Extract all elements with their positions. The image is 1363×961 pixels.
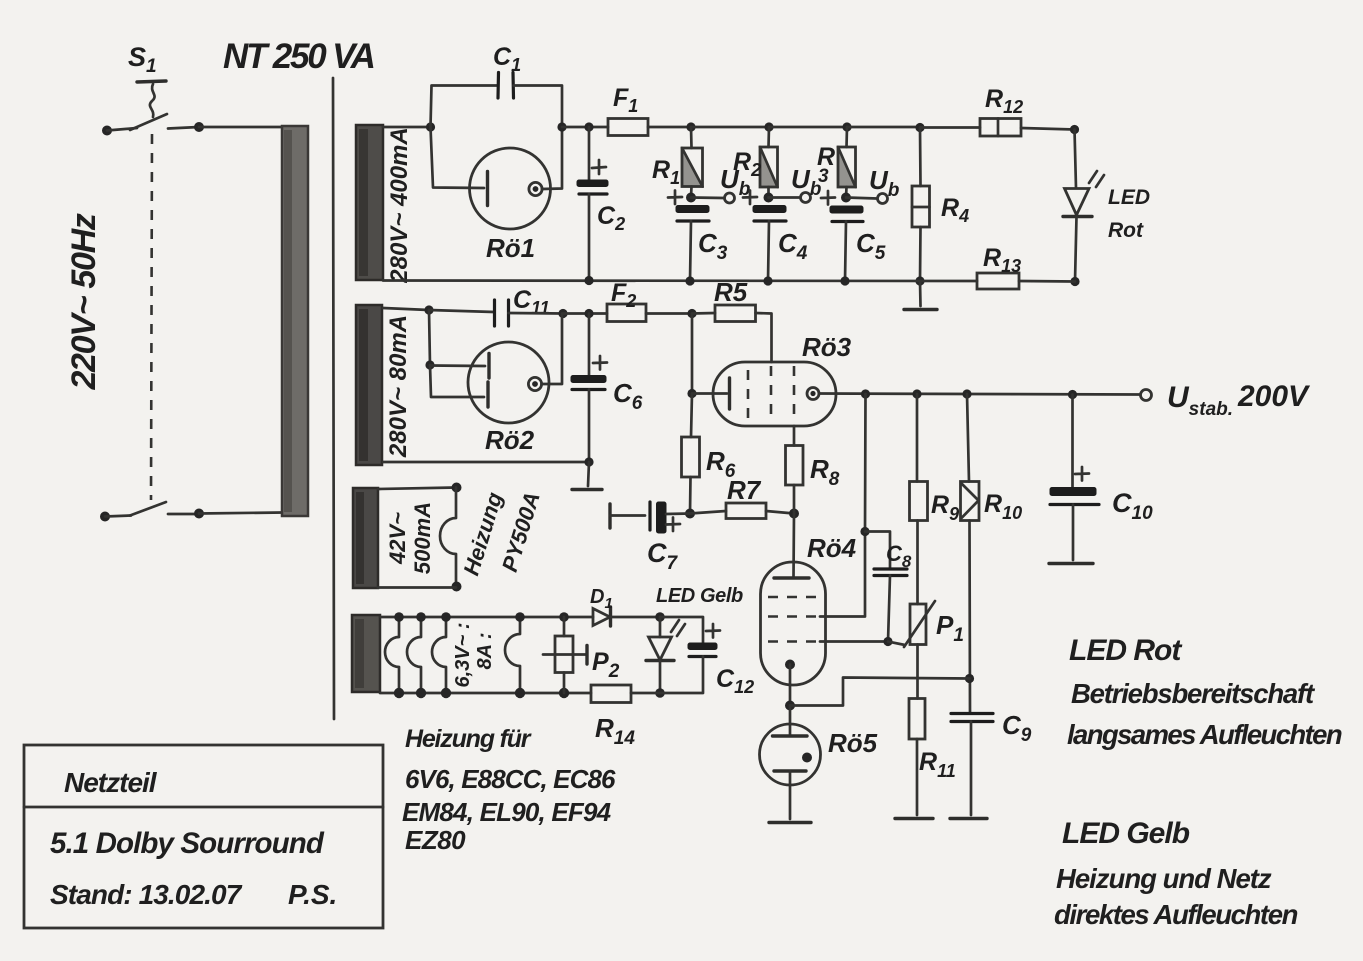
terminal Ustab — [1141, 390, 1152, 401]
label R1 — [652, 156, 680, 188]
capacitor C4 (electrolytic) — [753, 206, 786, 222]
label 280V~ 80mA — [385, 315, 412, 458]
wire node B to C2 node — [562, 126, 608, 129]
wire C4 to bottom rail — [768, 221, 769, 281]
node H (Rö2 output) — [558, 309, 567, 318]
wire C12 top branch — [660, 617, 703, 643]
svg-text:LED Gelb: LED Gelb — [656, 585, 743, 607]
node filament4 top — [515, 612, 525, 622]
label C12 — [716, 665, 754, 697]
node F (R4 tap) — [915, 123, 924, 132]
fuse F1 — [608, 119, 648, 136]
wire R9 to P1 — [916, 521, 919, 605]
wire C7 terminal to plate — [610, 514, 645, 517]
resistor R11 — [909, 699, 925, 740]
terminal Ub1 — [725, 193, 735, 203]
svg-text:Rö5: Rö5 — [828, 728, 878, 758]
node 42V bottom — [452, 582, 462, 592]
resistor R10 (with diode mark) — [961, 482, 980, 521]
svg-text:Rö2: Rö2 — [485, 425, 535, 455]
resistor R6 — [682, 394, 700, 514]
plus sign C7 — [666, 518, 680, 532]
wire R8 node down to Rö4 anode — [792, 514, 795, 579]
LED D Gelb — [646, 620, 685, 661]
label C4 — [778, 228, 808, 264]
ground (Rö5) — [769, 821, 811, 824]
wire C8 branch — [865, 532, 890, 570]
node R1/C3/Ub1 — [686, 193, 696, 203]
node P2 top — [559, 612, 569, 622]
node filament2 top — [416, 612, 426, 622]
transformer TR primary winding bar — [282, 126, 308, 516]
capacitor C6 (electrolytic) — [571, 376, 606, 390]
LED D Rot — [1063, 171, 1104, 217]
capacitor C10 (electrolytic) — [1050, 488, 1099, 505]
node filament2 bottom — [416, 688, 426, 698]
heater filament 2 — [407, 617, 421, 693]
node C (R1 tap) — [686, 122, 695, 131]
svg-text:Stand: 13.02.07: Stand: 13.02.07 — [50, 879, 243, 910]
tube Rö5 envelope — [760, 724, 821, 785]
node filament1 top — [394, 612, 404, 622]
label R4 — [941, 194, 969, 226]
label R8 — [810, 454, 840, 490]
node mains L terminal — [102, 126, 112, 136]
node grid3/P1 wiper — [883, 637, 892, 646]
tube Rö3 grid 3 (dashed) — [793, 366, 796, 422]
label R3 — [817, 143, 835, 187]
label PY500A — [497, 489, 545, 575]
node filament3 top — [441, 612, 451, 622]
wire L terminal to switch — [107, 128, 137, 131]
tube Rö5 anode plate — [773, 734, 808, 737]
node Rö3 cathode branch — [687, 389, 696, 398]
resistor R9 — [910, 482, 928, 521]
label Ub3 — [869, 165, 900, 201]
label C9 — [1002, 710, 1032, 746]
terminal Ub3 — [878, 194, 888, 204]
wire C12 bottom branch — [660, 657, 703, 694]
tube Rö2 anode plate 1 — [487, 354, 490, 379]
node C5 bottom — [840, 276, 849, 285]
svg-text:direktes Aufleuchten: direktes Aufleuchten — [1054, 899, 1298, 930]
transformer secondary winding 280V 80mA bar — [356, 305, 382, 465]
label NT 250 VA — [223, 37, 374, 76]
label R13 — [983, 244, 1021, 276]
ground (C9) — [950, 817, 987, 820]
wire C1 branch right riser — [514, 86, 563, 128]
svg-text:NT 250 VA: NT 250 VA — [223, 37, 374, 76]
wire switch to node — [168, 127, 199, 129]
wire C2 riser — [588, 127, 591, 180]
node C8 branch — [860, 527, 869, 536]
wire node to transformer primary top — [199, 126, 283, 129]
plus sign C4 — [743, 191, 757, 205]
label Heizung und Netz — [1056, 863, 1272, 894]
resistor R7 — [690, 503, 794, 519]
node R7/R8 (Rö4 anode net) — [789, 509, 799, 519]
svg-text:Heizung und Netz: Heizung und Netz — [1056, 863, 1272, 894]
wire R11 to ground — [916, 739, 919, 815]
heater filament 3 — [432, 617, 446, 693]
svg-text:Rö3: Rö3 — [802, 332, 852, 362]
label LED Rot heading — [1069, 634, 1183, 667]
wire rail D to E — [769, 126, 847, 129]
wire bottom rail supply1 — [383, 279, 977, 282]
label EM84, EL90, EF94 — [402, 797, 612, 827]
transformer secondary winding 6.3V 8A bar — [352, 615, 380, 692]
title block box — [24, 745, 383, 928]
tube Rö2 anode plate 2 — [486, 382, 489, 407]
node I (R5/R6 tap) — [687, 309, 696, 318]
node rail R10 branch — [962, 389, 971, 398]
svg-text:LED: LED — [1108, 186, 1150, 209]
wire P1 to R11 — [916, 645, 919, 699]
wire R12 to LED node — [1021, 128, 1075, 130]
wire node to transformer primary bottom — [199, 513, 283, 514]
label 42V~ — [385, 512, 410, 565]
label F1 — [613, 84, 638, 116]
wire rail F to R12 — [920, 126, 980, 129]
wire Rö4 cathode to step — [789, 665, 792, 706]
label 6,3V~ — [452, 622, 474, 687]
node switch output bottom — [194, 509, 204, 519]
svg-text:Heizung für: Heizung für — [405, 725, 532, 753]
label Rö5 — [828, 728, 878, 758]
wire LED Rot anode riser — [1075, 130, 1077, 189]
label F2 — [611, 279, 636, 311]
node A (Rö1 input) — [426, 122, 435, 131]
wire R13 to LED bottom node — [1019, 280, 1075, 283]
wire Rö1 anode to node B — [542, 127, 562, 189]
node G (Rö2 input) — [424, 305, 433, 314]
node R6/C7/R7 — [685, 509, 695, 519]
node LED Rot bottom — [1070, 277, 1079, 286]
label R2 — [733, 148, 761, 180]
node P2 bottom — [559, 688, 569, 698]
label C6 — [613, 378, 643, 414]
plus sign C5 — [821, 191, 835, 205]
tube Rö4 grid 2 (dashed) — [768, 615, 820, 618]
resistor R14 — [591, 685, 660, 703]
resistor R12 — [980, 119, 1021, 137]
tube Rö1 cathode plate — [486, 172, 489, 206]
node LED Rot top — [1070, 125, 1079, 134]
tube Rö4 cathode dot — [785, 660, 795, 670]
label P2 — [592, 648, 620, 682]
svg-text:280V~ 400mA: 280V~ 400mA — [386, 127, 413, 283]
wire rail C to D — [691, 126, 769, 129]
label P1 — [936, 610, 964, 646]
wire LED Gelb cathode — [659, 661, 662, 694]
capacitor C11 — [495, 300, 509, 326]
wire R10 down to C9 — [968, 521, 971, 714]
wire F1 to node C — [648, 126, 691, 129]
node filament3 bottom — [441, 688, 451, 698]
label 5.1 Dolby Sourround — [50, 827, 325, 860]
wire node I down to Rö3 cathode — [691, 314, 694, 394]
wire N terminal to lower switch — [105, 516, 131, 517]
wire heater bottom rail — [380, 692, 591, 695]
label Rö2 — [485, 425, 535, 455]
fuse F2 — [607, 304, 646, 322]
wire winding2 to node G — [383, 308, 429, 310]
label LED Gelb heading — [1062, 817, 1190, 850]
label C1 — [493, 43, 521, 75]
label LED Rot — [1108, 186, 1150, 242]
wire Ub2 tap — [769, 196, 801, 199]
capacitor C1 — [498, 73, 514, 99]
wire C11 to node H — [509, 312, 564, 315]
tube Rö3 grid 2 (dashed) — [770, 366, 773, 421]
tube Rö1 envelope — [470, 148, 551, 229]
node C3 bottom — [685, 276, 694, 285]
resistor R3 — [838, 127, 856, 198]
wire C10 riser — [1071, 395, 1074, 488]
switch S1 lower pole — [130, 502, 197, 516]
label direktes Aufleuchten — [1054, 899, 1298, 930]
wire C6 riser — [588, 314, 591, 376]
svg-text:200V: 200V — [1237, 380, 1311, 413]
label C8 — [886, 541, 912, 571]
wire C8 to grid3 node — [888, 576, 890, 642]
capacitor C9 — [951, 714, 993, 722]
svg-text:R7: R7 — [727, 475, 762, 505]
node step wire / C9 — [965, 674, 974, 683]
svg-text:Rot: Rot — [1108, 219, 1144, 242]
node R4 bottom rail — [915, 276, 924, 285]
wire C10 to ground — [1072, 505, 1075, 561]
label C10 — [1112, 488, 1153, 524]
node supply2 bottom — [584, 457, 593, 466]
node C4 bottom — [763, 276, 772, 285]
svg-text:Netzteil: Netzteil — [64, 767, 158, 798]
node E (R3 tap) — [842, 122, 851, 131]
svg-text:P.S.: P.S. — [288, 879, 337, 910]
wire node A down to Rö1 cathode — [431, 127, 485, 188]
wire C3 to bottom rail — [690, 221, 691, 281]
resistor R13 — [977, 273, 1019, 289]
label C3 — [698, 228, 728, 264]
tube Rö4 anode plate — [774, 576, 809, 579]
label R5 — [714, 277, 748, 307]
node filament1 bottom — [394, 688, 404, 698]
svg-text:LED Rot: LED Rot — [1069, 634, 1183, 667]
wire R5 to Rö3 grid2 — [756, 313, 772, 362]
label 8A — [474, 632, 496, 669]
tube Rö4 envelope — [761, 562, 826, 685]
wire bottom rail supply2 — [383, 461, 589, 464]
wire R4 node to ground — [919, 281, 922, 306]
node C2 top — [584, 122, 593, 131]
resistor R2 — [760, 127, 778, 198]
wire LED Rot cathode to node — [1075, 217, 1077, 282]
wire P2 bottom stub — [563, 673, 566, 694]
ground (supply1) — [904, 308, 937, 311]
label C7 — [647, 538, 679, 574]
heater PY500A filament — [440, 488, 456, 587]
tube Rö3 cathode plate — [728, 378, 731, 409]
wire C9 to ground — [970, 722, 973, 816]
node C2 bottom — [584, 276, 593, 285]
capacitor C7 terminal bar — [608, 504, 611, 528]
ground (C10) — [1049, 562, 1093, 565]
label Stand: 13.02.07 P.S. — [50, 879, 337, 910]
plus sign C6 — [593, 356, 607, 370]
label R12 — [985, 85, 1023, 117]
capacitor C12 (electrolytic) — [688, 643, 717, 657]
label Rö1 — [486, 233, 535, 263]
wire Rö5 riser — [789, 706, 792, 737]
node R3/C5/Ub3 — [841, 193, 851, 203]
transformer TR core — [333, 78, 334, 719]
svg-text:Rö4: Rö4 — [807, 533, 857, 563]
label R9 — [931, 491, 959, 524]
resistor R8 — [786, 426, 804, 514]
label C2 — [597, 202, 625, 234]
svg-text:Rö1: Rö1 — [486, 233, 535, 263]
switch S1 label — [128, 42, 157, 77]
switch S1 — [130, 81, 167, 130]
svg-text:R5: R5 — [714, 277, 748, 307]
capacitor C5 (electrolytic) — [830, 206, 863, 222]
svg-text:EM84, EL90, EF94: EM84, EL90, EF94 — [402, 797, 612, 827]
svg-text:3: 3 — [818, 166, 829, 187]
label 500mA — [410, 502, 435, 574]
node 42V top — [452, 483, 462, 493]
wire Ub3 tap — [846, 198, 877, 199]
svg-text:42V~: 42V~ — [385, 512, 410, 565]
wire to Rö2 anode plate 1 — [430, 364, 485, 367]
tube Rö4 grid 1 (dashed) — [768, 596, 818, 599]
wire heater top rail — [380, 616, 593, 619]
tube Rö2 cathode — [528, 377, 541, 390]
wire P2 top stub — [563, 617, 566, 636]
wire C7 to node — [666, 512, 690, 515]
wire node H to C6 node — [563, 312, 607, 315]
label EZ80 — [405, 825, 466, 855]
plus sign C10 — [1075, 467, 1089, 481]
ground (R11) — [895, 817, 933, 820]
label Betriebsbereitschaft — [1071, 678, 1316, 709]
capacitor C7 (electrolytic horizontal) — [650, 502, 666, 533]
label C5 — [856, 228, 886, 264]
label Heizung für — [405, 725, 532, 753]
label Heizung — [458, 489, 507, 579]
tube Rö3 anode — [807, 388, 819, 400]
diode D1 — [593, 607, 611, 626]
transformer secondary winding 280V 400mA bar — [356, 125, 383, 280]
node switch output top — [194, 122, 204, 132]
node rail R9 branch — [912, 389, 921, 398]
label Ustab 200V — [1167, 380, 1311, 420]
switch S1 mechanical link (dashed) — [151, 134, 152, 500]
plus sign C12 — [706, 624, 720, 638]
label R10 — [984, 490, 1022, 523]
terminal Ub2 — [801, 193, 811, 203]
wire rail E to F — [847, 126, 920, 129]
label R14 — [595, 713, 635, 749]
wire Rö2 cathode to node H — [542, 314, 563, 385]
label D1 — [590, 586, 613, 612]
wire Rö5 to ground — [789, 771, 792, 819]
node filament4 bottom — [515, 688, 525, 698]
svg-text:EZ80: EZ80 — [405, 825, 466, 855]
node mains N terminal — [100, 512, 110, 522]
tube Rö5 electrode dot — [802, 753, 812, 763]
tube Rö5 cathode plate — [774, 769, 806, 772]
node B (Rö1 output) — [557, 122, 566, 131]
node C6 top — [584, 309, 593, 318]
wire node G down to Rö2 plates — [429, 310, 430, 365]
wire LED Gelb anode riser — [659, 617, 662, 637]
potentiometer P1 — [910, 604, 926, 645]
resistor R4 — [912, 128, 930, 282]
label 6V6, E88CC, EC86 — [405, 764, 616, 794]
label Ub1 — [720, 164, 751, 200]
label LED Gelb — [656, 585, 743, 607]
wire rail down to R9 — [916, 394, 919, 482]
label Rö3 — [802, 332, 852, 362]
wire to Rö3 cathode — [692, 392, 727, 395]
label R11 — [919, 748, 956, 781]
svg-text:8A :: 8A : — [474, 632, 496, 669]
tube Rö2 envelope — [468, 342, 549, 423]
wire C1 branch left riser — [431, 86, 498, 128]
potentiometer P2 wiper — [543, 646, 587, 665]
node rail C8 branch — [861, 389, 870, 398]
wire D1 to LED Gelb node — [611, 616, 661, 619]
plus sign C3 — [668, 191, 682, 205]
plus sign C2 — [592, 160, 606, 174]
wire to Rö2 anode plate 2 — [430, 365, 484, 397]
svg-text:220V~ 50Hz: 220V~ 50Hz — [65, 213, 103, 390]
resistor R1 — [682, 127, 703, 198]
capacitor C8 — [874, 569, 907, 576]
wire node to ground — [588, 462, 589, 486]
label C11 — [513, 286, 550, 318]
tube Rö3 grid 1 (dashed) — [747, 370, 750, 418]
tube Rö4 grid 3 (dashed) — [768, 640, 820, 643]
potentiometer P2 — [555, 636, 573, 673]
wire winding1 to node A — [383, 126, 430, 129]
wire C2 to bottom rail — [588, 194, 591, 281]
svg-text:LED Gelb: LED Gelb — [1062, 817, 1190, 850]
svg-text:5.1 Dolby Sourround: 5.1 Dolby Sourround — [50, 827, 325, 860]
node LED Gelb bottom — [655, 688, 665, 698]
label 280V~ 400mA — [386, 127, 413, 283]
svg-text:Betriebsbereitschaft: Betriebsbereitschaft — [1071, 678, 1316, 709]
label 220V~ 50Hz — [65, 213, 103, 390]
node LED Gelb top — [655, 612, 665, 622]
capacitor C3 (electrolytic) — [676, 206, 709, 222]
label R7 — [727, 475, 762, 505]
potentiometer P1 wiper — [888, 601, 935, 647]
wire C5 to bottom rail — [845, 222, 846, 282]
wire step to C9 node — [790, 678, 970, 706]
ground (supply2) — [572, 488, 602, 491]
wire Rö4 grid2 riser — [820, 532, 865, 617]
tube Rö1 anode — [529, 182, 542, 195]
wire node G to C11 — [429, 310, 494, 312]
label Ub2 — [791, 164, 822, 200]
wire C6 to bottom rail — [588, 390, 591, 463]
wire rail down to C8 node — [864, 394, 867, 532]
wire Ub1 tap — [691, 196, 724, 199]
node R2/C4/Ub2 — [764, 193, 774, 203]
capacitor C2 (electrolytic) — [577, 180, 608, 194]
tube Rö3 envelope — [713, 362, 836, 426]
